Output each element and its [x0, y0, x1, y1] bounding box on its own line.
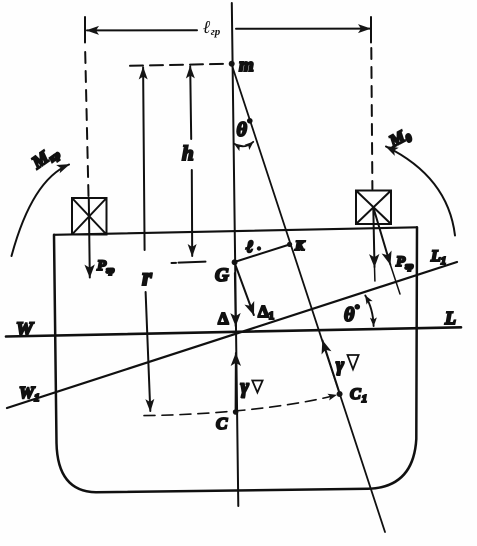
svg-text:γ: γ — [336, 355, 344, 376]
buoyancy arrow heeled gamma-nabla — [323, 341, 340, 394]
svg-text:Ргр: Ргр — [396, 254, 414, 272]
Delta arrow on centerline — [234, 273, 237, 326]
svg-text:C1: C1 — [350, 386, 367, 405]
svg-text:θ°: θ° — [344, 302, 359, 326]
waterline WL — [6, 327, 461, 336]
dimension end tick right — [370, 17, 372, 43]
svg-text:m: m — [239, 55, 254, 76]
dimension end tick left — [84, 17, 86, 43]
P_gr arrow left — [89, 199, 90, 278]
cargo box right — [356, 191, 391, 225]
line G to K — [235, 245, 290, 263]
dashed drop line right — [371, 48, 372, 189]
svg-text:Мкр: Мкр — [27, 140, 63, 174]
centerline — [232, 3, 239, 506]
point G — [232, 259, 238, 265]
svg-text:h: h — [182, 141, 194, 165]
svg-text:Δ: Δ — [218, 309, 229, 328]
point K — [287, 242, 292, 247]
h dimension line lower part — [191, 170, 193, 256]
moment arrow M_theta — [386, 147, 455, 236]
dashed arc C to C1 — [144, 395, 337, 416]
svg-text:ℓ: ℓ — [246, 237, 253, 256]
dashed level line at m — [130, 64, 228, 66]
svg-text:γ: γ — [241, 376, 250, 398]
svg-text:θ°: θ° — [237, 116, 252, 141]
svg-text:Ргр: Ргр — [97, 258, 115, 276]
theta arc at m — [234, 142, 253, 147]
Delta1 arrow from G — [235, 263, 254, 315]
dashed drop line left — [85, 52, 88, 196]
point C — [233, 409, 239, 415]
svg-text:G: G — [215, 265, 229, 286]
top dimension line lgr: right segment — [236, 28, 370, 30]
moment arrow M_kr — [12, 165, 70, 257]
inclined axis line through m, K, C1 — [232, 64, 386, 532]
inclined waterline W1L1 — [7, 262, 457, 408]
svg-text:Δ1: Δ1 — [258, 302, 274, 322]
deck line — [54, 227, 417, 235]
buoyancy arrow upright gamma-nabla — [235, 353, 237, 411]
svg-text:W1: W1 — [19, 383, 40, 404]
svg-text:ℓгр: ℓгр — [203, 17, 221, 38]
r dimension line upper part — [143, 68, 145, 251]
theta arc at waterlines — [365, 296, 373, 327]
P_gr slanted arrow right — [374, 208, 391, 265]
cargo box left — [72, 198, 107, 235]
point C1 — [337, 391, 343, 397]
r dimension line lower part — [146, 292, 151, 411]
hull outline — [54, 227, 417, 492]
svg-text:r: r — [142, 264, 152, 291]
G level tick — [179, 262, 206, 263]
svg-text:K: K — [294, 239, 306, 254]
svg-text:L: L — [444, 308, 456, 328]
h dimension line upper part — [190, 67, 191, 140]
svg-text:L1: L1 — [430, 248, 446, 267]
P vertical arrow right — [373, 208, 374, 267]
svg-text:C: C — [216, 414, 228, 433]
svg-text:W: W — [16, 319, 34, 340]
top dimension line lgr: left segment — [87, 29, 197, 31]
point m — [229, 61, 235, 67]
